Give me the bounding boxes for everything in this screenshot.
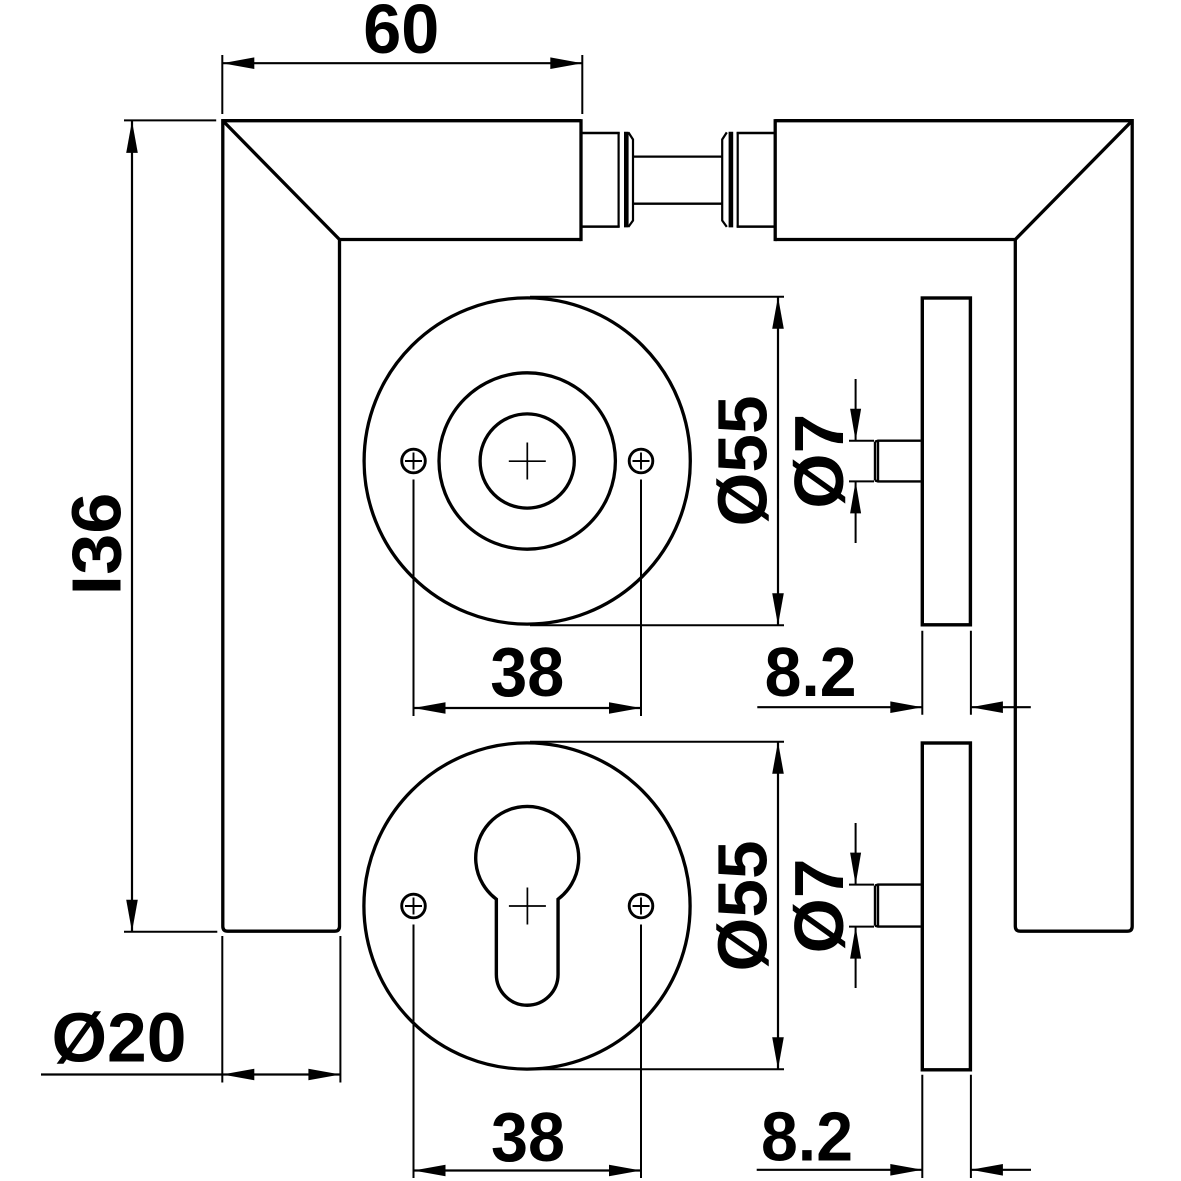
svg-text:Ø55: Ø55 — [704, 396, 782, 527]
dimension 136 extension line bottom — [124, 931, 217, 933]
dimension 8.2 bottom extension line left — [921, 1075, 923, 1178]
dimension O55 top line — [777, 297, 779, 625]
dimension O20 right arrowhead — [308, 1069, 340, 1081]
bottom rosette side view plate — [922, 743, 970, 1070]
top rosette handle hole circle — [480, 414, 574, 508]
dimension 38 bottom left arrowhead — [414, 1165, 446, 1177]
dimension 38 top line — [414, 707, 642, 709]
svg-text:8.2: 8.2 — [765, 633, 857, 711]
svg-text:I36: I36 — [58, 493, 136, 596]
dimension O7 bottom tick lower — [849, 926, 874, 928]
dimension 136 bottom arrowhead — [126, 900, 138, 932]
bottom rosette center cross — [509, 888, 546, 925]
dimension 38 bottom line — [414, 1169, 642, 1171]
svg-text:Ø55: Ø55 — [704, 841, 782, 972]
dimension 38 top extension line left — [413, 480, 415, 717]
svg-text:8.2: 8.2 — [761, 1098, 853, 1176]
dimension 8.2 top extension line left — [921, 631, 923, 715]
spindle bottom line — [633, 203, 722, 205]
bottom rosette left screw — [402, 894, 426, 918]
dimension 60 line — [222, 62, 582, 64]
dimension 8.2 top extension line right — [970, 631, 972, 715]
svg-text:38: 38 — [490, 633, 564, 711]
top rosette side view plate — [922, 298, 970, 625]
dimension 8.2 top left line and arrowhead — [757, 706, 922, 708]
dimension 136 line — [131, 121, 133, 932]
dimension 60 extension line left — [221, 55, 223, 114]
left lever handle outline — [223, 121, 581, 932]
dimension O7 top tick lower — [849, 480, 874, 482]
svg-text:Ø7: Ø7 — [780, 414, 858, 509]
left collar flange bar — [624, 132, 629, 228]
svg-text:60: 60 — [363, 0, 439, 68]
bottom rosette outer circle — [364, 743, 690, 1069]
right lever handle outline — [775, 121, 1132, 932]
dimension 60 extension line right — [581, 55, 583, 114]
dimension O55 top extension line upper — [530, 296, 784, 298]
right neck top edge — [737, 132, 776, 135]
dimension O20 extension line left — [221, 936, 223, 1083]
dimension 60 right arrowhead — [550, 57, 582, 69]
dimension O7 bottom upper arrow — [855, 823, 857, 885]
right neck end line — [737, 132, 739, 227]
dimension O55 top extension line lower — [530, 624, 784, 626]
dimension O7 bottom tick upper — [849, 884, 874, 886]
svg-text:Ø20: Ø20 — [52, 999, 187, 1077]
dimension 38 bottom right arrowhead — [609, 1165, 641, 1177]
left neck end line — [617, 132, 619, 227]
right lever body left edge — [774, 119, 777, 241]
right neck bottom edge — [737, 225, 776, 228]
left lever body right edge — [579, 119, 582, 241]
dimension 8.2 bottom extension line right — [970, 1075, 972, 1178]
svg-text:Ø7: Ø7 — [780, 859, 858, 954]
bottom rosette side view spindle stub — [875, 885, 921, 927]
right collar chamfer piece — [722, 132, 727, 227]
dimension O55 bottom up arrowhead — [772, 742, 784, 774]
dimension 136 extension line top — [124, 119, 216, 121]
top rosette right screw cross — [633, 453, 650, 470]
left lever miter line — [223, 121, 340, 240]
dimension O7 top upper arrow — [855, 379, 857, 441]
left neck top edge — [581, 132, 620, 135]
top rosette middle circle — [439, 373, 615, 549]
dimension 8.2 bottom left line and arrowhead — [757, 1169, 923, 1171]
dimension O55 bottom line — [777, 742, 779, 1069]
left collar chamfer piece — [628, 132, 633, 227]
dimension 136 top arrowhead — [126, 121, 138, 153]
dimension 8.2 top right line and arrowhead — [971, 706, 1031, 708]
top rosette center cross — [509, 443, 546, 480]
dimension O20 left arrowhead — [222, 1069, 254, 1081]
dimension O20 extension line right — [339, 936, 341, 1083]
dimension 38 top extension line right — [640, 480, 642, 717]
svg-text:38: 38 — [491, 1098, 565, 1176]
dimension 38 bottom extension line right — [640, 925, 642, 1179]
dimension O7 top tick upper — [849, 440, 874, 442]
left neck bottom edge — [581, 225, 620, 228]
dimension O55 bottom extension line lower — [530, 1068, 784, 1070]
top rosette left screw cross — [405, 453, 422, 470]
bottom rosette right screw cross — [633, 898, 650, 915]
bottom rosette right screw — [629, 894, 653, 918]
dimension 38 bottom extension line left — [413, 925, 415, 1179]
dimension 38 top right arrowhead — [609, 702, 641, 714]
top rosette side view spindle stub — [875, 441, 921, 482]
dimension O7 bottom lower arrow — [855, 927, 857, 988]
dimension O55 bottom extension line upper — [530, 741, 784, 743]
right lever miter line — [1015, 121, 1132, 240]
dimension 60 left arrowhead — [222, 57, 254, 69]
dimension 8.2 bottom right line and arrowhead — [971, 1169, 1031, 1171]
dimension 38 top left arrowhead — [414, 702, 446, 714]
dimension O55 top up arrowhead — [772, 297, 784, 329]
bottom rosette euro cylinder keyhole — [476, 806, 579, 1005]
dimension O55 bottom down arrowhead — [772, 1037, 784, 1069]
right collar flange bar — [729, 132, 734, 228]
bottom rosette left screw cross — [405, 898, 422, 915]
top rosette outer circle — [364, 298, 690, 624]
dimension O55 top down arrowhead — [772, 593, 784, 625]
spindle top line — [633, 155, 722, 157]
dimension O20 line — [41, 1073, 340, 1075]
top rosette left screw — [402, 449, 426, 473]
top rosette right screw — [629, 449, 653, 473]
dimension O7 top lower arrow — [855, 481, 857, 543]
